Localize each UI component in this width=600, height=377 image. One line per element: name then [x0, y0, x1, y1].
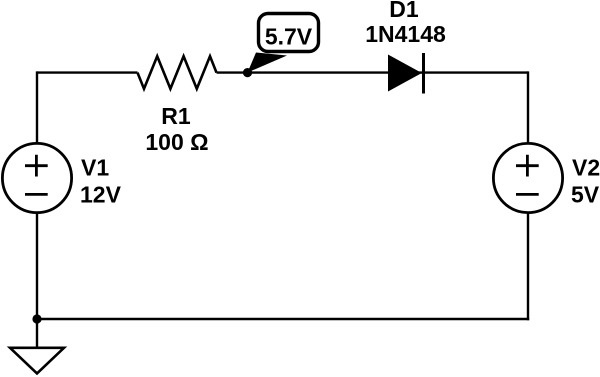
- voltage source V1 plus sign: [25, 155, 48, 177]
- svg-text:V2: V2: [572, 155, 600, 181]
- svg-text:12V: 12V: [80, 182, 122, 208]
- resistor R1: [138, 56, 217, 89]
- svg-text:1N4148: 1N4148: [365, 21, 446, 47]
- wire top-left segment (V1 top to R1): [37, 71, 138, 73]
- wire ground stem: [36, 319, 38, 349]
- voltage source V2 plus sign: [516, 155, 539, 177]
- wire left lower (V1 to bottom node): [36, 213, 38, 320]
- node A junction dot (R1/D1 node): [243, 68, 252, 77]
- svg-text:100 Ω: 100 Ω: [145, 129, 208, 155]
- wire right upper (top wire to V2): [527, 71, 529, 143]
- wire left upper (top wire to V1): [36, 71, 38, 143]
- svg-text:5.7V: 5.7V: [265, 24, 313, 50]
- svg-text:V1: V1: [81, 155, 109, 181]
- voltage source V2 minus sign: [516, 193, 539, 196]
- diode D1 anode triangle: [388, 55, 422, 92]
- ground: [10, 348, 64, 374]
- svg-text:5V: 5V: [571, 182, 600, 208]
- svg-text:D1: D1: [389, 0, 419, 22]
- svg-text:R1: R1: [161, 103, 191, 129]
- callout box 5.7V: [259, 14, 319, 52]
- callout tail (pointer to node A): [248, 53, 288, 73]
- voltage source V2 circle: [493, 143, 562, 212]
- wire right lower (V2 to bottom wire): [527, 213, 529, 320]
- diode D1 cathode bar: [422, 53, 425, 94]
- wire bottom segment: [37, 318, 529, 320]
- junction dot (ground node): [32, 314, 41, 323]
- voltage source V1 circle: [2, 143, 71, 212]
- wire top-right segment (R1 to V2 top through D1): [217, 71, 529, 73]
- voltage source V1 minus sign: [25, 193, 48, 196]
